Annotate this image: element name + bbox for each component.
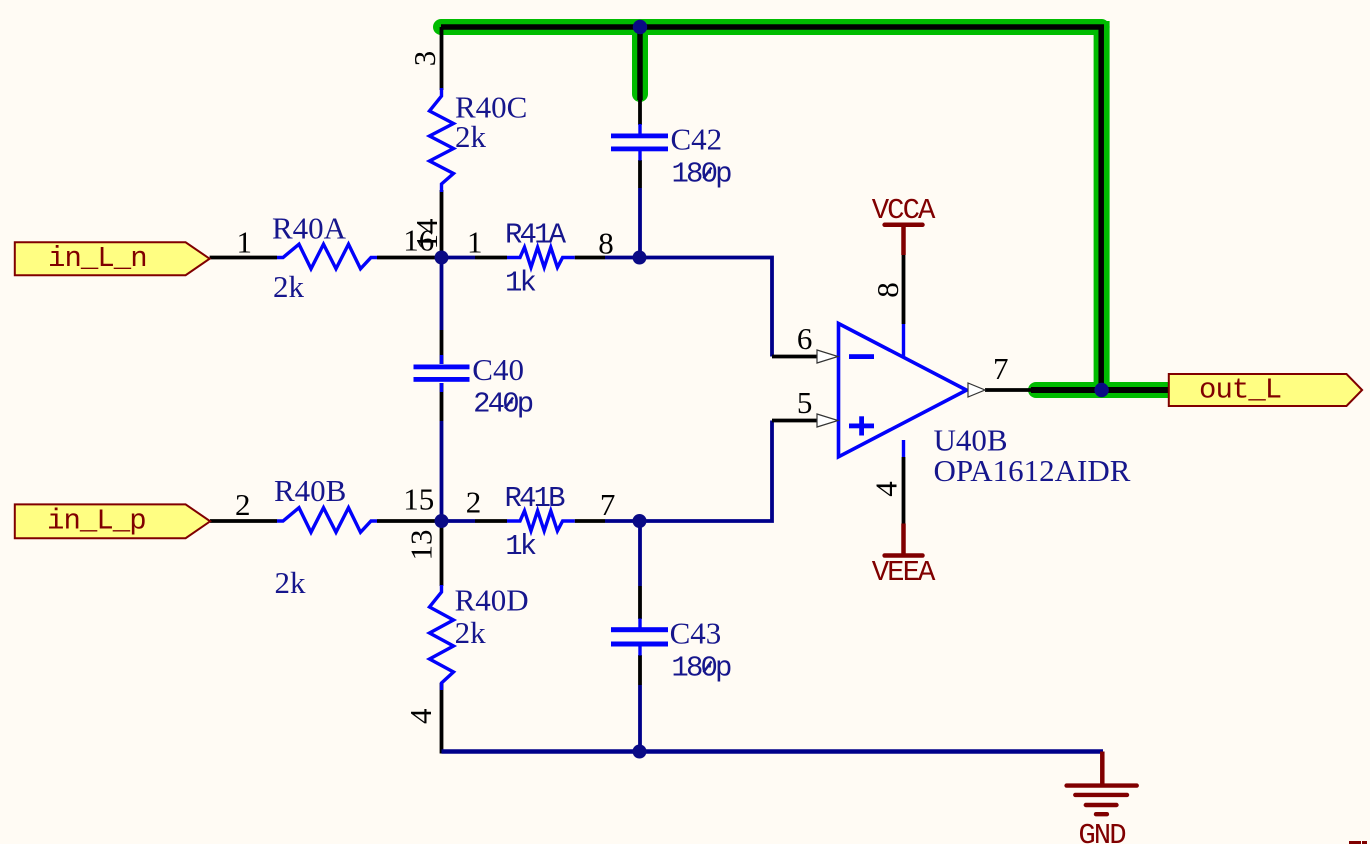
wire top (highlighted core) [441, 24, 1104, 30]
svg-text:1k: 1k [505, 267, 536, 300]
svg-text:OPA1612AIDR: OPA1612AIDR [934, 453, 1131, 488]
wire R41B to node D [575, 519, 605, 523]
pin 4 stub blue [902, 440, 905, 457]
junction node A [435, 251, 449, 265]
wire C42 to node B [638, 188, 642, 258]
svg-text:240p: 240p [473, 388, 533, 421]
pin arrow op-amp pin 5 [817, 414, 838, 427]
wire R41A to node B navy part [605, 256, 640, 260]
svg-text:2k: 2k [455, 119, 487, 154]
bottom ground wire [442, 749, 1104, 754]
svg-text:in_L_n: in_L_n [48, 242, 147, 275]
wire in_L_n to R40A [210, 256, 277, 260]
pin wire C43 bottom [638, 655, 642, 685]
svg-text:13: 13 [404, 530, 439, 561]
pin 14 wire of R40C [440, 190, 444, 258]
svg-text:4: 4 [869, 481, 904, 497]
svg-text:15: 15 [403, 482, 434, 517]
svg-text:VCCA: VCCA [872, 194, 936, 227]
wire node C to R41B [442, 519, 476, 523]
pin 5 wire horizontal [772, 419, 818, 423]
highlighted net out_L : green glow top wire [441, 19, 1102, 35]
svg-text:180p: 180p [671, 651, 731, 684]
pin 4 wire black [902, 457, 906, 524]
power VEEA [872, 524, 936, 590]
wire R40B to node C [377, 519, 442, 523]
op-amp plus sign [849, 416, 874, 435]
pin 13 wire of R40D [440, 521, 444, 586]
svg-text:1: 1 [467, 225, 483, 260]
svg-text:VEEA: VEEA [872, 556, 936, 589]
junction node B [633, 251, 647, 265]
pin 4 wire of R40D [440, 683, 444, 754]
svg-text:out_L: out_L [1199, 374, 1281, 407]
resistor R41A [507, 247, 575, 267]
wire C43 to bottom wire [638, 685, 642, 752]
wire out_L (highlighted core) [1031, 387, 1169, 393]
svg-text:5: 5 [797, 385, 813, 420]
svg-text:2: 2 [235, 487, 251, 522]
svg-text:4: 4 [403, 708, 438, 724]
svg-text:7: 7 [993, 351, 1009, 386]
highlighted net out_L : green glow stub to C42 [632, 27, 648, 94]
svg-text:C43: C43 [670, 616, 722, 651]
svg-text:7: 7 [600, 487, 616, 522]
pin 8 wire black [902, 255, 906, 324]
ground GND [1067, 752, 1137, 844]
svg-text:R40A: R40A [272, 211, 347, 246]
svg-text:R40B: R40B [274, 473, 346, 508]
pin 3 wire of R40C [440, 27, 444, 90]
resistor R40A [277, 244, 377, 269]
wire right vertical (highlighted core) [1098, 27, 1104, 390]
junction bottom wire [633, 745, 647, 759]
wire node D down to C43 [638, 521, 642, 586]
capacitor C43 [611, 619, 668, 656]
op-amp minus sign [849, 354, 874, 359]
wire node D to op-amp pin 5 [640, 421, 772, 522]
wire stub to C42 (highlighted core) [637, 27, 643, 100]
svg-text:R40D: R40D [455, 583, 529, 618]
capacitor C40 [414, 355, 470, 392]
junction node D [633, 514, 647, 528]
svg-text:C42: C42 [671, 122, 723, 157]
junction top wire [633, 20, 647, 34]
wire R41B to node D navy part [605, 519, 640, 523]
pin wire C40 top [440, 330, 444, 364]
highlighted net out_L : green glow output wire [1036, 382, 1172, 398]
junction node C [435, 514, 449, 528]
port in_L_p [15, 504, 210, 538]
resistor R41B [507, 511, 575, 531]
svg-text:180p: 180p [672, 158, 732, 191]
capacitor C42 [611, 124, 668, 161]
svg-text:2k: 2k [455, 615, 487, 650]
clipped title block text bottom right [1349, 841, 1367, 844]
pin wire C42 top [638, 100, 642, 125]
junction out_L [1094, 383, 1108, 397]
wire node A down to C40 [440, 258, 444, 331]
svg-text:14: 14 [409, 218, 444, 250]
svg-text:C40: C40 [472, 352, 524, 387]
svg-text:R41A: R41A [505, 219, 567, 252]
slashed zero marks for stroke-font values [704, 168, 712, 179]
port in_L_n [15, 242, 210, 275]
port out_L [1169, 374, 1362, 407]
svg-text:3: 3 [407, 51, 442, 67]
wire R40A to node A [377, 256, 442, 260]
wire C40 to node C [440, 421, 444, 521]
op-amp U40B triangle [839, 324, 967, 457]
resistor R40B [277, 508, 377, 533]
svg-text:8: 8 [598, 225, 614, 260]
wire node B to op-amp pin 6 [640, 258, 772, 357]
pin arrow op-amp pin 6 [817, 350, 838, 363]
pin wire C42 bottom [638, 160, 642, 188]
pin 6 wire horizontal [772, 355, 818, 359]
svg-text:2: 2 [466, 485, 482, 520]
pin arrow op-amp pin 7 [968, 383, 985, 397]
svg-text:in_L_p: in_L_p [47, 505, 146, 538]
power VCCA [872, 194, 936, 255]
wire in_L_p to R40B [210, 519, 277, 523]
pin wire C43 top [638, 586, 642, 619]
wire node A to R41A [442, 256, 476, 260]
svg-text:1k: 1k [505, 530, 536, 563]
svg-text:8: 8 [870, 282, 905, 298]
svg-text:2k: 2k [275, 565, 307, 600]
svg-text:R41B: R41B [505, 482, 566, 515]
svg-text:6: 6 [797, 321, 813, 356]
resistor R40C [430, 88, 454, 192]
highlighted net out_L : green glow right vertical [1094, 21, 1110, 396]
svg-text:GND: GND [1078, 819, 1125, 844]
svg-text:2k: 2k [273, 269, 305, 304]
resistor R40D [430, 585, 454, 690]
pin 7 wire of op-amp [985, 388, 1036, 392]
pin wire C40 bottom [440, 383, 444, 421]
pin 8 stub blue [902, 324, 905, 357]
svg-text:1: 1 [237, 225, 253, 260]
wire R41A to node B [575, 256, 605, 260]
